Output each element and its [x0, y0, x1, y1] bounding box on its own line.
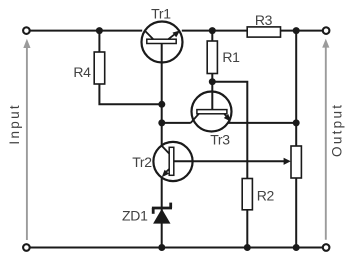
wire pot top lead	[295, 123, 297, 146]
svg-text:R1: R1	[222, 49, 240, 65]
transistor Tr1	[142, 5, 183, 62]
terminal output top	[323, 27, 330, 34]
wire pot bottom lead	[295, 178, 297, 248]
Tr3 collector diagonal	[191, 114, 199, 123]
node ZD1 on bottom rail	[158, 244, 165, 251]
terminal output bottom	[323, 244, 330, 251]
Tr3 emitter diagonal with arrow	[224, 114, 228, 118]
Tr1 base bar	[147, 39, 176, 43]
wire R1 top lead	[211, 31, 213, 41]
Tr2 emitter diagonal with arrow	[165, 169, 169, 173]
node R4 top on input rail	[96, 27, 103, 34]
wire Tr2 emitter to ZD1 to bottom rail	[161, 177, 163, 247]
svg-text:R3: R3	[255, 12, 273, 28]
svg-text:Input: Input	[7, 103, 22, 145]
svg-text:Tr1: Tr1	[151, 5, 171, 21]
wire R2 bottom lead	[246, 210, 248, 248]
resistor R2	[242, 179, 274, 210]
svg-text:Tr2: Tr2	[132, 154, 152, 170]
node R1 top on rail	[209, 27, 216, 34]
resistor R4	[73, 52, 104, 84]
svg-text:R2: R2	[257, 187, 275, 203]
terminal input top	[23, 27, 30, 34]
potentiometer P1 body	[284, 146, 302, 178]
wire main vertical (Tr1 base / R4 / Tr3 collector / Tr2 collector net)	[161, 43, 163, 146]
wire top rail right segment (Tr1 to output terminal, through R3)	[182, 30, 322, 32]
wire node R1/R2 to R2 top lead	[212, 82, 247, 179]
output direction arrow (grey)	[322, 39, 344, 240]
Tr1 emitter diagonal with arrow	[168, 33, 176, 39]
ZD1 cathode bar with zener hooks	[152, 207, 172, 210]
resistor R1	[207, 41, 240, 74]
ZD1 anode triangle	[153, 209, 170, 224]
svg-text:R4: R4	[73, 64, 91, 80]
svg-text:ZD1: ZD1	[122, 207, 148, 223]
Tr3 base bar	[197, 110, 227, 114]
potentiometer wiper arrowhead	[284, 158, 291, 165]
Tr2 base bar	[169, 147, 174, 175]
resistor R3	[247, 12, 280, 37]
node pot on bottom rail	[293, 244, 300, 251]
node Tr3 emitter / pot top	[293, 119, 300, 126]
node R2 on bottom rail	[244, 244, 251, 251]
wire bottom rail	[31, 247, 323, 249]
svg-text:Tr3: Tr3	[210, 131, 230, 147]
zener diode ZD1	[122, 203, 172, 224]
wire Tr3 collector to main vertical	[162, 122, 191, 124]
transistor Tr3	[191, 92, 232, 148]
node R1 bottom / Tr3 base / R2	[209, 78, 216, 85]
wire R1 bottom lead continuing to Tr3 base	[211, 74, 213, 110]
node Tr3 collector to main vertical	[158, 119, 165, 126]
wire Tr2 base to potentiometer wiper	[174, 160, 285, 162]
wire top rail left segment (input terminal to Tr1)	[31, 30, 143, 32]
wire Tr3 emitter to potentiometer top node	[227, 122, 296, 124]
transistor Tr2	[132, 142, 192, 181]
Tr1 collector diagonal	[145, 31, 154, 40]
wire R4 bottom lead to node at main vertical	[99, 84, 161, 104]
svg-text:Output: Output	[329, 103, 344, 157]
Tr2 collector diagonal	[162, 146, 170, 154]
wire right vertical from top rail to pot top node	[295, 31, 297, 123]
terminal input bottom	[23, 244, 30, 251]
node R4 to main vertical	[158, 101, 165, 108]
input direction arrow (grey)	[7, 39, 30, 240]
wire R4 top lead	[98, 31, 100, 53]
node R3 right / right vertical	[293, 27, 300, 34]
